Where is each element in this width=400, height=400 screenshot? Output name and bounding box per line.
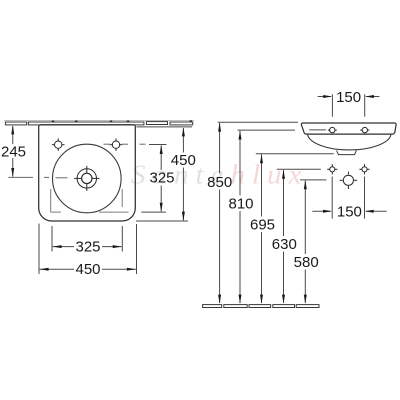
svg-text:325: 325: [149, 169, 174, 186]
svg-text:850: 850: [207, 174, 232, 191]
tap centreline dashes: [104, 143, 146, 145]
fixing hole right (front): [359, 164, 369, 174]
bowl arc (front): [308, 134, 392, 150]
dimension 325 (bottom of top view): [52, 226, 122, 252]
svg-text:150: 150: [336, 89, 361, 106]
dimension 150 (middle): [312, 177, 386, 219]
svg-text:450: 450: [171, 152, 196, 169]
rim (edge-on): [301, 123, 396, 134]
basin outline (top view, rounded square): [39, 125, 136, 221]
wall break joints: [52, 120, 192, 122]
svg-text:150: 150: [337, 204, 362, 221]
tap hole right (top view): [110, 138, 123, 151]
fixing hole left (front): [327, 164, 337, 174]
svg-text:695: 695: [250, 217, 275, 234]
drain hole (front): [340, 172, 357, 189]
floor strip (broken planks): [203, 305, 319, 308]
extension line 630 (fixing hole level): [277, 168, 321, 170]
svg-text:580: 580: [294, 254, 319, 271]
rim tap hole left: [328, 127, 337, 132]
dimension 450 (right of top view): [136, 127, 192, 221]
dimension 580: [304, 181, 306, 304]
dimension 810: [239, 131, 241, 303]
wall section (broken strip): [4, 120, 194, 122]
bowl centreline (dash-dot): [8, 176, 67, 178]
svg-text:450: 450: [75, 261, 100, 278]
rim tap hole right: [360, 127, 369, 132]
dimension 450 (bottom of top view): [39, 224, 137, 275]
extension line 695 (drain cup level): [256, 153, 334, 155]
overflow slot line: [309, 129, 326, 131]
dimension 850: [219, 123, 221, 303]
dimension 695: [261, 154, 263, 303]
hidden pedestal lines: [51, 189, 129, 212]
dimension 150 (top): [318, 94, 380, 117]
svg-text:630: 630: [272, 236, 297, 253]
dimension 245: [12, 126, 14, 177]
extension line 810 (rim underside level): [238, 129, 296, 131]
svg-text:245: 245: [1, 143, 26, 160]
extension line 850 (rim top level): [218, 121, 298, 123]
dimension 325 (right of top view): [141, 145, 166, 213]
extension line 580 (drain level): [300, 179, 326, 181]
watermark Santehlux: [131, 160, 308, 191]
svg-text:810: 810: [228, 196, 253, 213]
drain cup (front): [337, 150, 357, 154]
tap hole left (top view): [52, 138, 65, 151]
bowl circle: [53, 144, 122, 213]
drain (top view): [74, 166, 99, 191]
dimension 630: [283, 170, 285, 303]
svg-text:325: 325: [75, 239, 100, 256]
